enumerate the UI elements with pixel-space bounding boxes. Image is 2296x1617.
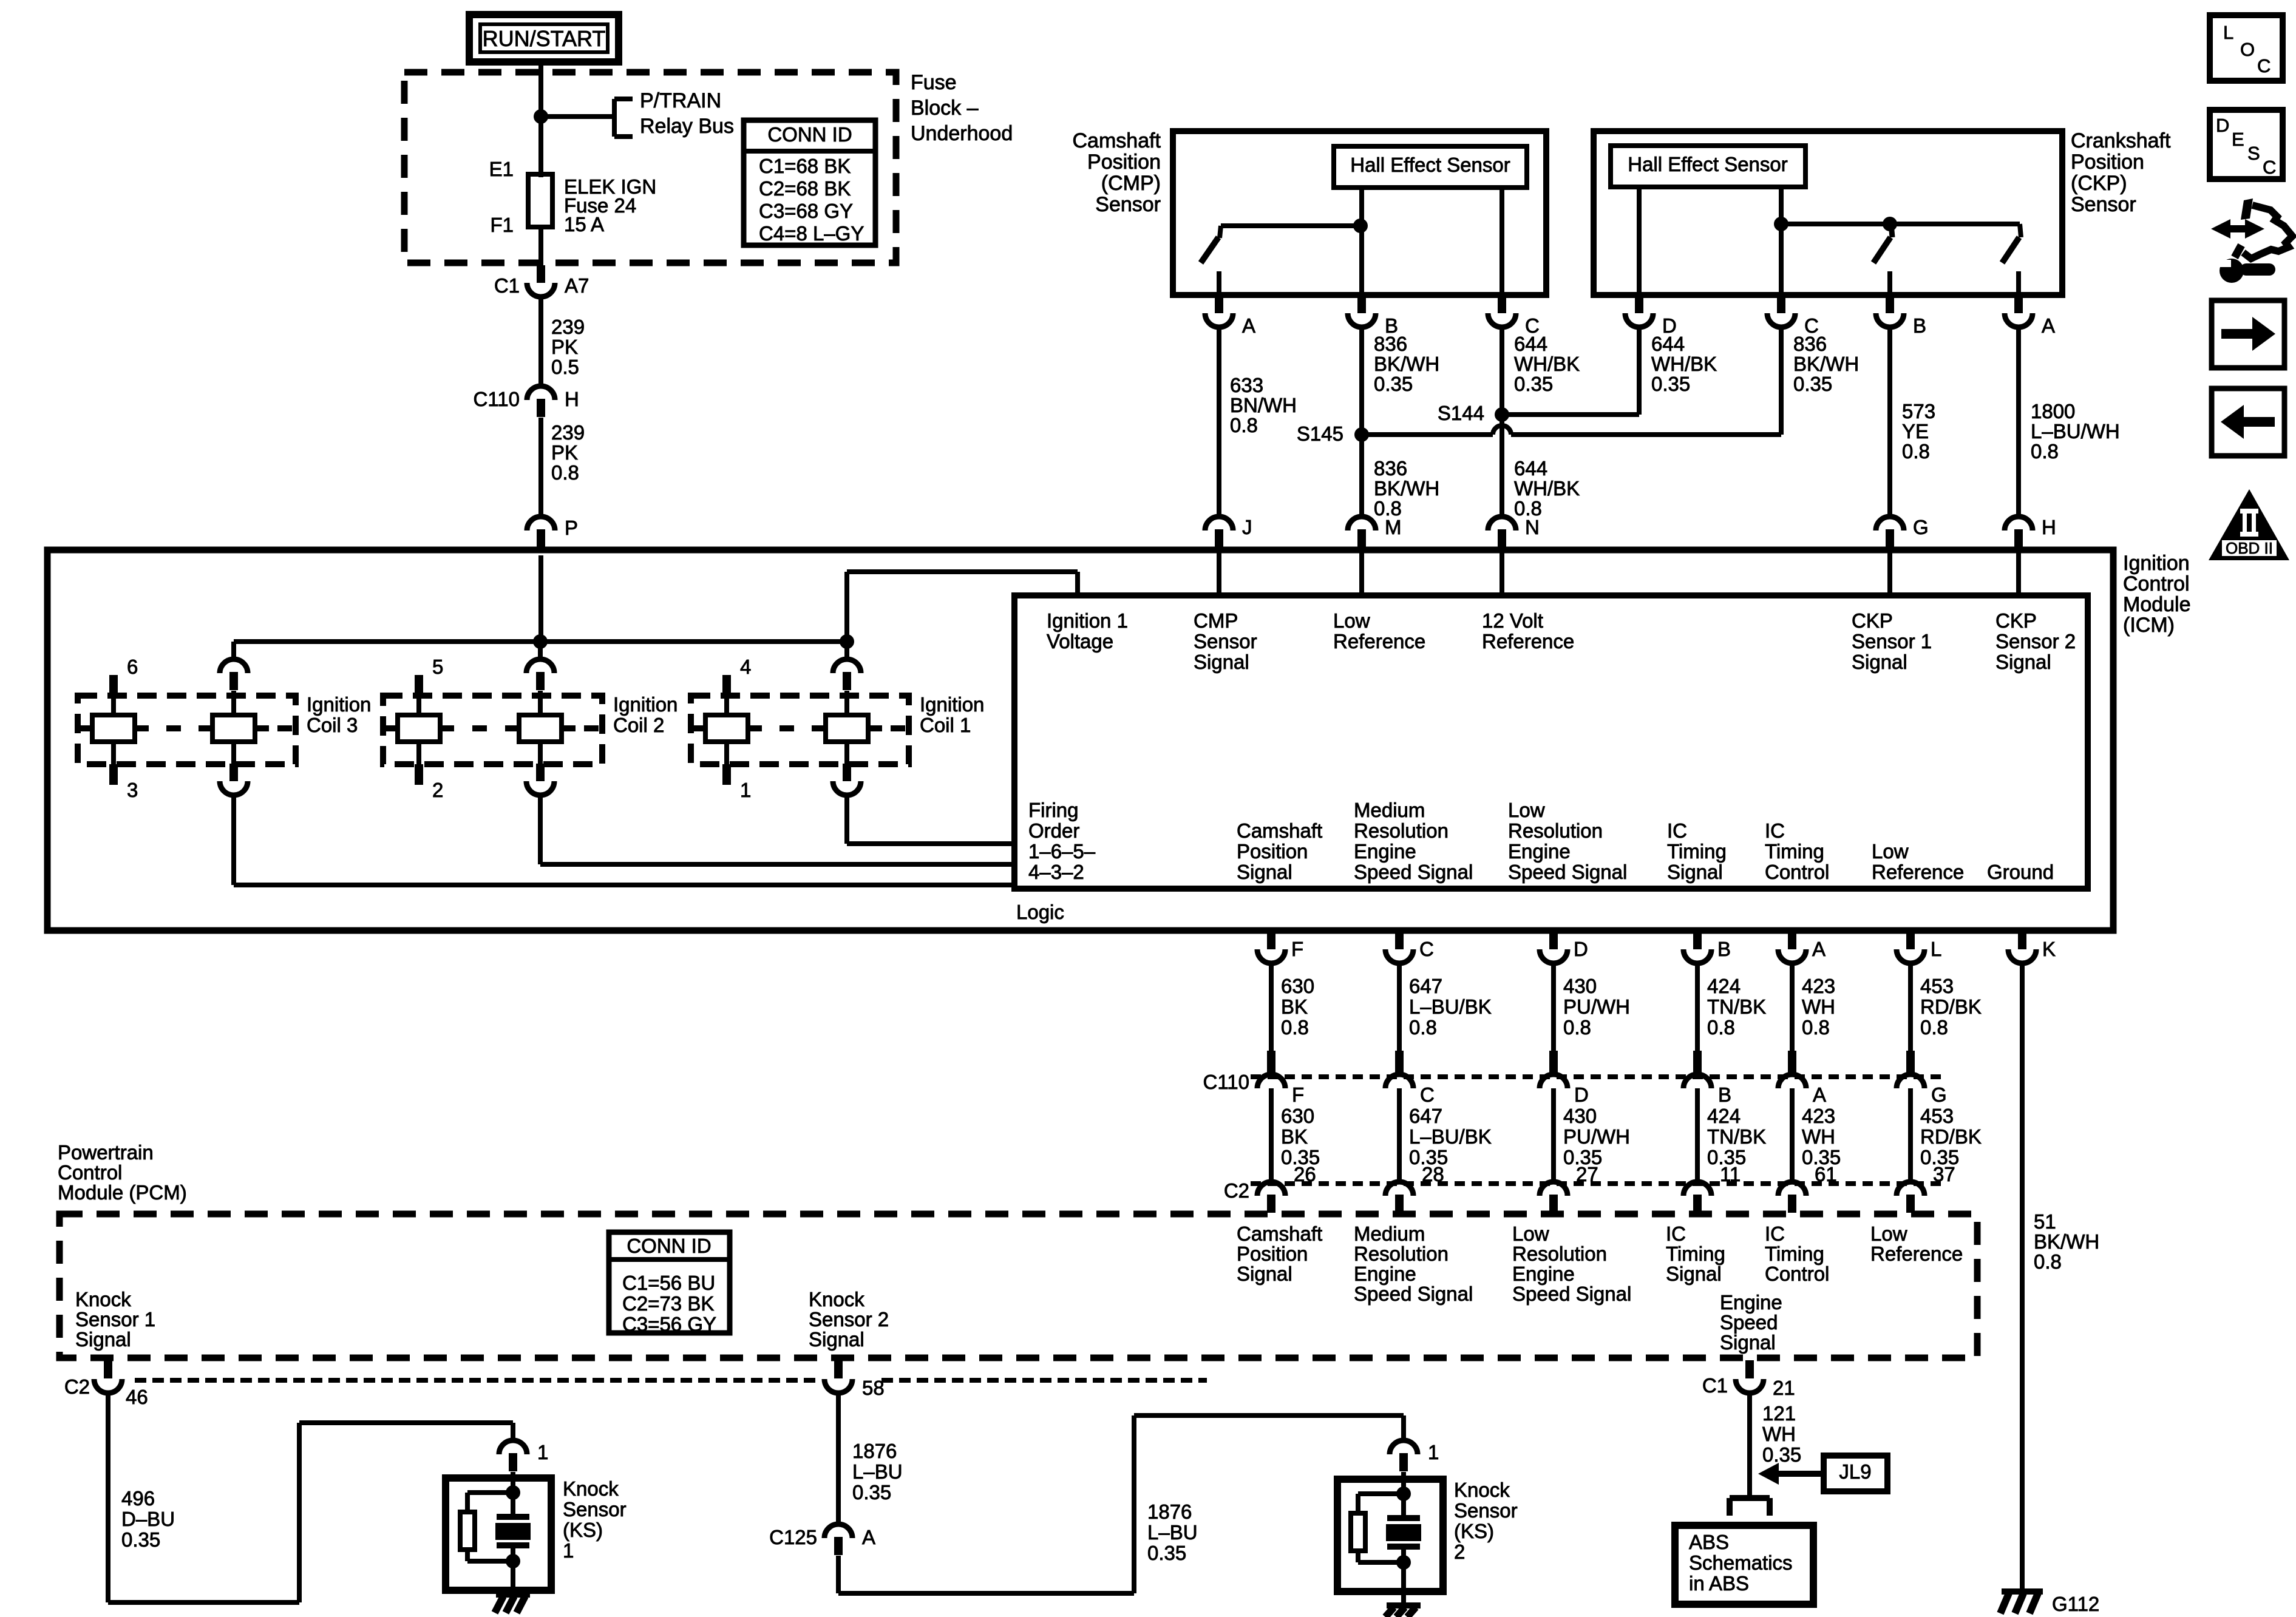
connector 1 at KS1 — [511, 1423, 515, 1440]
svg-text:CONN ID: CONN ID — [767, 123, 852, 146]
coil 2 plug terminal top (pin 5) — [415, 675, 423, 696]
svg-text:0.8: 0.8 — [1230, 414, 1258, 436]
CONN ID table (PCM) — [609, 1232, 730, 1333]
svg-text:0.8: 0.8 — [1563, 1016, 1591, 1039]
wire H into logic box — [2016, 548, 2021, 595]
svg-text:0.35: 0.35 — [1374, 373, 1413, 395]
svg-text:CKP: CKP — [1852, 609, 1893, 632]
svg-text:430: 430 — [1563, 975, 1597, 997]
switch rail CKP — [1781, 222, 2020, 226]
svg-text:B: B — [1913, 314, 1926, 337]
connector P at ICM top — [537, 529, 545, 547]
svg-text:1–6–5–: 1–6–5– — [1028, 840, 1096, 863]
svg-text:RD/BK: RD/BK — [1920, 1125, 1982, 1148]
knock sensor 1 box — [446, 1478, 551, 1590]
svg-text:Camshaft: Camshaft — [1237, 819, 1322, 842]
svg-text:Signal: Signal — [1720, 1331, 1776, 1354]
wire RUN/START to fuse block — [538, 62, 543, 117]
CMP sensor box — [1173, 131, 1546, 295]
svg-text:C1=56 BU: C1=56 BU — [622, 1272, 715, 1294]
KS1 bottom node — [506, 1554, 520, 1568]
connector pin A at x=2008 sensor row — [1215, 296, 1223, 313]
svg-text:F: F — [1291, 938, 1303, 960]
svg-text:A7: A7 — [565, 274, 589, 297]
wire junction to P/TRAIN bracket — [541, 114, 614, 119]
wire C110 C to C2 — [1397, 1088, 1402, 1182]
svg-text:IC: IC — [1765, 819, 1785, 842]
svg-text:Signal: Signal — [1237, 1263, 1292, 1285]
wire B to C110 — [1695, 964, 1700, 1053]
svg-text:Position: Position — [1237, 840, 1308, 863]
svg-text:12 Volt: 12 Volt — [1482, 609, 1543, 632]
switch stub to pin B (CKP) — [1887, 271, 1892, 295]
coil 2 plug terminal bottom (pin 2) — [415, 764, 423, 785]
svg-text:Ignition: Ignition — [613, 693, 678, 716]
fuse block dashed box (Fuse Block - Underhood) — [404, 72, 896, 263]
svg-text:Coil 2: Coil 2 — [613, 714, 664, 736]
svg-text:Reference: Reference — [1872, 861, 1964, 883]
svg-text:Camshaft: Camshaft — [1073, 129, 1161, 152]
svg-text:647: 647 — [1409, 975, 1442, 997]
svg-text:0.8: 0.8 — [1920, 1016, 1948, 1039]
svg-text:Position: Position — [2071, 151, 2144, 174]
wire C110 F to C2 — [1269, 1088, 1274, 1182]
wire hall to switch junction (CMP) — [1359, 188, 1364, 226]
svg-text:WH: WH — [1802, 995, 1835, 1018]
svg-text:BK/WH: BK/WH — [1374, 353, 1439, 375]
wire C110 B to C2 — [1695, 1088, 1700, 1182]
svg-text:Resolution: Resolution — [1354, 1242, 1449, 1265]
svg-text:Hall Effect Sensor: Hall Effect Sensor — [1350, 154, 1510, 176]
svg-text:Engine: Engine — [1720, 1291, 1782, 1314]
svg-text:0.35: 0.35 — [1651, 373, 1690, 395]
node junction at P/TRAIN tap — [534, 109, 548, 124]
svg-text:Timing: Timing — [1765, 1242, 1824, 1265]
svg-text:Powertrain: Powertrain — [58, 1141, 154, 1164]
svg-text:647: 647 — [1409, 1105, 1442, 1127]
connector pin B at x=2243 sensor row — [1357, 296, 1366, 313]
svg-text:423: 423 — [1802, 1105, 1835, 1127]
wire F to C110 — [1269, 964, 1274, 1053]
KS2 center wire + node — [1401, 1472, 1406, 1494]
svg-text:58: 58 — [862, 1377, 885, 1399]
svg-text:Module: Module — [2123, 593, 2191, 616]
node bus at coil1 riser — [840, 634, 854, 649]
coil 1 top connector — [844, 642, 849, 659]
wire KS2 to ground — [1401, 1562, 1406, 1605]
connector C at ICM bottom — [1395, 932, 1404, 949]
svg-text:Medium: Medium — [1354, 1222, 1425, 1245]
icon forward arrow box — [2212, 300, 2284, 368]
svg-text:1876: 1876 — [852, 1440, 897, 1462]
svg-text:(CKP): (CKP) — [2071, 172, 2127, 195]
C2 fine dashed line — [1251, 1181, 1943, 1186]
svg-text:G: G — [1913, 516, 1929, 538]
svg-text:Schematics: Schematics — [1689, 1551, 1793, 1574]
svg-text:Sensor: Sensor — [2071, 193, 2136, 216]
svg-text:239: 239 — [551, 421, 585, 444]
svg-text:Speed Signal: Speed Signal — [1354, 861, 1473, 883]
P/TRAIN Relay Bus bracket — [612, 99, 617, 137]
Hall Effect Sensor box (CMP) — [1334, 146, 1527, 188]
svg-text:Control: Control — [58, 1161, 122, 1184]
svg-text:121: 121 — [1762, 1402, 1796, 1425]
svg-text:L–BU: L–BU — [1147, 1521, 1198, 1544]
svg-text:Fuse: Fuse — [911, 71, 957, 94]
JL9 box — [1824, 1456, 1887, 1491]
svg-text:0.8: 0.8 — [2034, 1250, 2062, 1273]
svg-text:1876: 1876 — [1147, 1500, 1192, 1523]
connector C110 A row — [1788, 1051, 1796, 1075]
connector J at ICM top — [1215, 529, 1223, 547]
svg-text:424: 424 — [1707, 1105, 1741, 1127]
svg-text:Ignition: Ignition — [920, 693, 984, 716]
svg-text:Low: Low — [1872, 840, 1909, 863]
ICM outer box — [47, 550, 2113, 931]
svg-text:Sensor: Sensor — [1194, 630, 1257, 653]
svg-text:G112: G112 — [2052, 1593, 2099, 1615]
svg-text:D: D — [1574, 938, 1588, 960]
svg-text:BK/WH: BK/WH — [1374, 477, 1439, 500]
coil 3 secondary element — [231, 691, 236, 764]
ground G112 — [2002, 1588, 2043, 1595]
svg-text:630: 630 — [1281, 975, 1314, 997]
svg-text:644: 644 — [1514, 457, 1547, 480]
svg-text:2: 2 — [1454, 1541, 1465, 1563]
wire CKP B to G — [1887, 328, 1892, 517]
ground at KS2 — [1387, 1602, 1421, 1609]
svg-text:644: 644 — [1651, 333, 1685, 355]
svg-text:WH: WH — [1762, 1423, 1796, 1445]
svg-text:0.8: 0.8 — [1707, 1016, 1735, 1039]
svg-text:Engine: Engine — [1508, 840, 1571, 863]
svg-text:RUN/START: RUN/START — [483, 26, 606, 51]
wire C110 to P — [538, 418, 543, 517]
wire CKP A to H — [2016, 328, 2021, 517]
connector pin A at x=3325 sensor row — [2014, 296, 2023, 313]
C110 fine dashed line — [1251, 1074, 1943, 1079]
svg-text:C: C — [1420, 1083, 1435, 1106]
svg-text:A: A — [1813, 1083, 1826, 1106]
svg-text:CMP: CMP — [1194, 609, 1238, 632]
coil 1 primary element — [724, 696, 729, 764]
svg-text:C: C — [1419, 938, 1434, 960]
svg-text:51: 51 — [2034, 1210, 2056, 1233]
svg-text:L–BU: L–BU — [852, 1460, 903, 1483]
connector pin C at x=2934 sensor row — [1777, 296, 1785, 313]
connector C2 pin 28 row — [1395, 1195, 1404, 1213]
coil 1 plug terminal bottom (pin 1) — [722, 764, 731, 785]
wire pin B inside CMP — [1359, 226, 1364, 295]
svg-text:P: P — [565, 517, 578, 539]
svg-text:N: N — [1525, 516, 1540, 538]
switch blade A CKP — [2002, 237, 2019, 263]
svg-text:Knock: Knock — [75, 1288, 131, 1310]
icon back arrow box — [2212, 388, 2284, 456]
PCM dashed box — [59, 1214, 1977, 1358]
svg-text:Low: Low — [1870, 1222, 1907, 1245]
svg-text:C2=73 BK: C2=73 BK — [622, 1292, 714, 1315]
svg-text:O: O — [2240, 39, 2255, 60]
node bus at coil2 — [533, 634, 548, 649]
svg-text:PU/WH: PU/WH — [1563, 995, 1630, 1018]
svg-text:Signal: Signal — [1995, 651, 2051, 673]
connector C125/A inline — [834, 1537, 843, 1555]
wire CKP D down and to S144 — [1637, 328, 1642, 415]
KS1 center wire + node — [511, 1472, 515, 1493]
svg-text:Reference: Reference — [1870, 1242, 1963, 1265]
ground at KS1 — [496, 1592, 530, 1598]
svg-text:Medium: Medium — [1354, 799, 1425, 821]
svg-text:Resolution: Resolution — [1354, 819, 1449, 842]
svg-text:0.35: 0.35 — [1147, 1542, 1186, 1564]
KS2 bottom node — [1396, 1555, 1411, 1570]
svg-text:423: 423 — [1802, 975, 1835, 997]
Logic box — [1014, 595, 2088, 889]
connector K at ICM bottom — [2018, 932, 2026, 949]
svg-text:1: 1 — [537, 1441, 548, 1463]
svg-text:WH/BK: WH/BK — [1514, 353, 1580, 375]
JL9 arrow — [1758, 1463, 1779, 1485]
svg-text:BK/WH: BK/WH — [1793, 353, 1859, 375]
svg-text:Low: Low — [1508, 799, 1545, 821]
svg-text:Signal: Signal — [1852, 651, 1907, 673]
svg-text:Order: Order — [1028, 819, 1079, 842]
svg-text:Voltage: Voltage — [1047, 630, 1113, 653]
svg-text:424: 424 — [1707, 975, 1741, 997]
connector pin D at x=2700 sensor row — [1635, 296, 1643, 313]
svg-text:Position: Position — [1237, 1242, 1308, 1265]
svg-text:Resolution: Resolution — [1508, 819, 1603, 842]
svg-text:A: A — [862, 1526, 875, 1548]
svg-text:Timing: Timing — [1667, 840, 1727, 863]
svg-text:S144: S144 — [1438, 402, 1484, 424]
svg-text:0.8: 0.8 — [1802, 1016, 1830, 1039]
icon OBD II triangle — [2209, 489, 2289, 560]
splice S145 — [1354, 427, 1369, 442]
svg-text:C3=56 GY: C3=56 GY — [622, 1313, 716, 1335]
ignition bus horizontal — [234, 639, 847, 644]
wire J into logic box — [1217, 548, 1221, 595]
coil 3 top connector — [231, 642, 236, 659]
svg-text:JL9: JL9 — [1839, 1460, 1871, 1483]
svg-text:(KS): (KS) — [1454, 1520, 1494, 1542]
svg-text:Block –: Block – — [911, 97, 979, 120]
svg-text:Logic: Logic — [1016, 901, 1064, 923]
connector pin C at x=2474 sensor row — [1498, 296, 1506, 313]
wire A to C110 — [1790, 964, 1795, 1053]
svg-text:C1: C1 — [494, 274, 520, 297]
svg-text:Sensor 1: Sensor 1 — [1852, 630, 1932, 653]
svg-text:BN/WH: BN/WH — [1230, 394, 1297, 416]
wire P into ICM to bus — [538, 555, 543, 642]
svg-text:C: C — [2257, 55, 2271, 76]
connector C110 B row — [1693, 1051, 1702, 1075]
connector F at ICM bottom — [1267, 932, 1275, 949]
node rail junction at C (CKP) — [1774, 217, 1788, 231]
svg-text:L: L — [1931, 938, 1941, 960]
svg-text:Low: Low — [1333, 609, 1370, 632]
svg-text:Crankshaft: Crankshaft — [2071, 129, 2171, 152]
coil 1 secondary element — [844, 691, 849, 764]
svg-text:Timing: Timing — [1765, 840, 1824, 863]
connector C110 G row — [1906, 1051, 1915, 1075]
svg-text:453: 453 — [1920, 1105, 1954, 1127]
connector B at ICM bottom — [1693, 932, 1702, 949]
svg-text:(KS): (KS) — [563, 1519, 603, 1541]
node rail junction at B (CKP) — [1883, 217, 1897, 231]
svg-text:(ICM): (ICM) — [2123, 614, 2175, 637]
wire C1/A7 to C110 — [538, 298, 543, 386]
svg-text:0.8: 0.8 — [551, 461, 579, 484]
connector G at ICM top — [1886, 529, 1894, 547]
svg-text:BK: BK — [1281, 1125, 1308, 1148]
svg-text:Reference: Reference — [1333, 630, 1425, 653]
svg-text:Engine: Engine — [1354, 840, 1416, 863]
wire M into logic box — [1359, 548, 1364, 595]
svg-text:YE: YE — [1902, 420, 1929, 442]
svg-text:WH/BK: WH/BK — [1514, 477, 1580, 500]
ignition coil 3 dashed box — [78, 696, 296, 764]
connector 58 exit — [834, 1360, 843, 1378]
svg-text:0.35: 0.35 — [1793, 373, 1832, 395]
svg-text:836: 836 — [1374, 333, 1407, 355]
coil 3 bottom connector — [229, 764, 238, 781]
svg-text:630: 630 — [1281, 1105, 1314, 1127]
svg-text:D: D — [2216, 115, 2229, 136]
svg-text:21: 21 — [1773, 1377, 1795, 1399]
connector D at ICM bottom — [1549, 932, 1558, 949]
svg-text:430: 430 — [1563, 1105, 1597, 1127]
coil 2 bottom connector — [536, 764, 545, 781]
svg-text:Ignition: Ignition — [2123, 552, 2190, 575]
svg-text:46: 46 — [126, 1386, 148, 1408]
svg-text:0.35: 0.35 — [121, 1528, 160, 1551]
wire CMP B to S145 — [1359, 328, 1364, 435]
wire K ground run to G112 — [2020, 964, 2025, 1592]
svg-text:WH/BK: WH/BK — [1651, 353, 1717, 375]
wire CKP C down to S145 rail with hop — [1779, 328, 1784, 435]
icon wrench/handle — [2211, 219, 2264, 239]
svg-text:Ignition: Ignition — [307, 693, 371, 716]
node switch junction CMP — [1353, 219, 1368, 233]
KS1 piezo element — [511, 1493, 515, 1516]
svg-text:IC: IC — [1667, 819, 1687, 842]
svg-text:0.8: 0.8 — [1409, 1016, 1437, 1039]
ignition coil 2 dashed box — [383, 696, 602, 764]
svg-text:Engine: Engine — [1512, 1263, 1575, 1285]
svg-text:Camshaft: Camshaft — [1237, 1222, 1322, 1245]
svg-text:C110: C110 — [474, 388, 520, 410]
connector H at ICM top — [2014, 529, 2023, 547]
svg-text:C4=8 L–GY: C4=8 L–GY — [759, 222, 864, 245]
svg-text:0.8: 0.8 — [2031, 440, 2059, 463]
coil 2 mid dashed line — [384, 725, 398, 731]
svg-text:Engine: Engine — [1354, 1263, 1416, 1285]
svg-text:PK: PK — [551, 336, 578, 358]
svg-text:L–BU/BK: L–BU/BK — [1409, 995, 1492, 1018]
coil 2 primary element — [416, 696, 421, 764]
wire hall to rail (CKP) — [1779, 187, 1784, 224]
wire C to C110 — [1397, 964, 1402, 1053]
svg-text:Low: Low — [1512, 1222, 1549, 1245]
svg-text:CONN ID: CONN ID — [627, 1235, 711, 1257]
svg-text:Reference: Reference — [1482, 630, 1574, 653]
svg-text:0.35: 0.35 — [1762, 1443, 1801, 1466]
svg-text:L–BU/WH: L–BU/WH — [2031, 420, 2120, 442]
svg-text:F: F — [1292, 1083, 1304, 1106]
svg-text:P/TRAIN: P/TRAIN — [640, 89, 721, 112]
svg-text:Timing: Timing — [1666, 1242, 1725, 1265]
svg-text:239: 239 — [551, 316, 585, 338]
svg-text:633: 633 — [1230, 374, 1263, 396]
KS2 piezo element — [1401, 1494, 1406, 1517]
svg-text:B: B — [1718, 1083, 1731, 1106]
svg-text:IC: IC — [1666, 1222, 1686, 1245]
svg-text:Control: Control — [1765, 1263, 1829, 1285]
wire CMP A to J — [1217, 328, 1221, 517]
svg-text:A: A — [2042, 314, 2055, 337]
svg-text:6: 6 — [127, 656, 138, 678]
wire coil 2 to logic — [538, 796, 543, 864]
svg-text:Signal: Signal — [1666, 1263, 1722, 1285]
svg-text:Knock: Knock — [809, 1288, 864, 1310]
icon DESC box — [2210, 110, 2283, 179]
svg-text:453: 453 — [1920, 975, 1954, 997]
coil 2 secondary element — [538, 691, 543, 764]
svg-text:PU/WH: PU/WH — [1563, 1125, 1630, 1148]
connector C110 F row — [1267, 1051, 1275, 1075]
svg-text:C1=68 BK: C1=68 BK — [759, 155, 851, 177]
svg-text:L: L — [2223, 22, 2233, 43]
connector C110/H inline — [537, 399, 545, 417]
svg-text:Sensor: Sensor — [1454, 1499, 1518, 1522]
coil 3 plug terminal bottom (pin 3) — [109, 764, 118, 785]
svg-text:in ABS: in ABS — [1689, 1572, 1749, 1595]
connector C2 pin 11 row — [1693, 1195, 1702, 1213]
svg-text:1800: 1800 — [2031, 400, 2075, 422]
svg-text:644: 644 — [1514, 333, 1547, 355]
svg-text:C1: C1 — [1702, 1374, 1728, 1397]
half connector to ABS — [1730, 1495, 1770, 1501]
svg-text:C2: C2 — [1224, 1179, 1249, 1202]
svg-text:Speed Signal: Speed Signal — [1354, 1283, 1473, 1305]
svg-text:M: M — [1385, 516, 1402, 538]
wire 121 WH from C1/21 — [1747, 1393, 1752, 1496]
svg-text:4: 4 — [740, 656, 751, 678]
svg-text:1: 1 — [740, 779, 751, 801]
wire hall to pin C (CMP) — [1500, 188, 1504, 295]
svg-text:836: 836 — [1374, 457, 1407, 480]
svg-text:Signal: Signal — [75, 1328, 131, 1351]
svg-text:Signal: Signal — [809, 1328, 864, 1351]
coil 1 bottom connector — [843, 764, 851, 781]
ignition coil 1 dashed box — [691, 696, 909, 764]
connector C1/21 exit — [1745, 1360, 1754, 1378]
connector A at ICM bottom — [1788, 932, 1796, 949]
svg-text:D–BU: D–BU — [121, 1508, 175, 1530]
svg-text:Module (PCM): Module (PCM) — [58, 1181, 187, 1204]
connector C2/46 exit — [104, 1360, 112, 1378]
connector C110 D row — [1549, 1051, 1558, 1075]
svg-text:F1: F1 — [490, 214, 514, 236]
svg-text:H: H — [2042, 516, 2056, 538]
CKP sensor box — [1594, 131, 2062, 295]
svg-text:CKP: CKP — [1995, 609, 2037, 632]
svg-text:573: 573 — [1902, 400, 1935, 422]
svg-text:WH: WH — [1802, 1125, 1835, 1148]
connector C2 pin 26 row — [1267, 1195, 1275, 1213]
